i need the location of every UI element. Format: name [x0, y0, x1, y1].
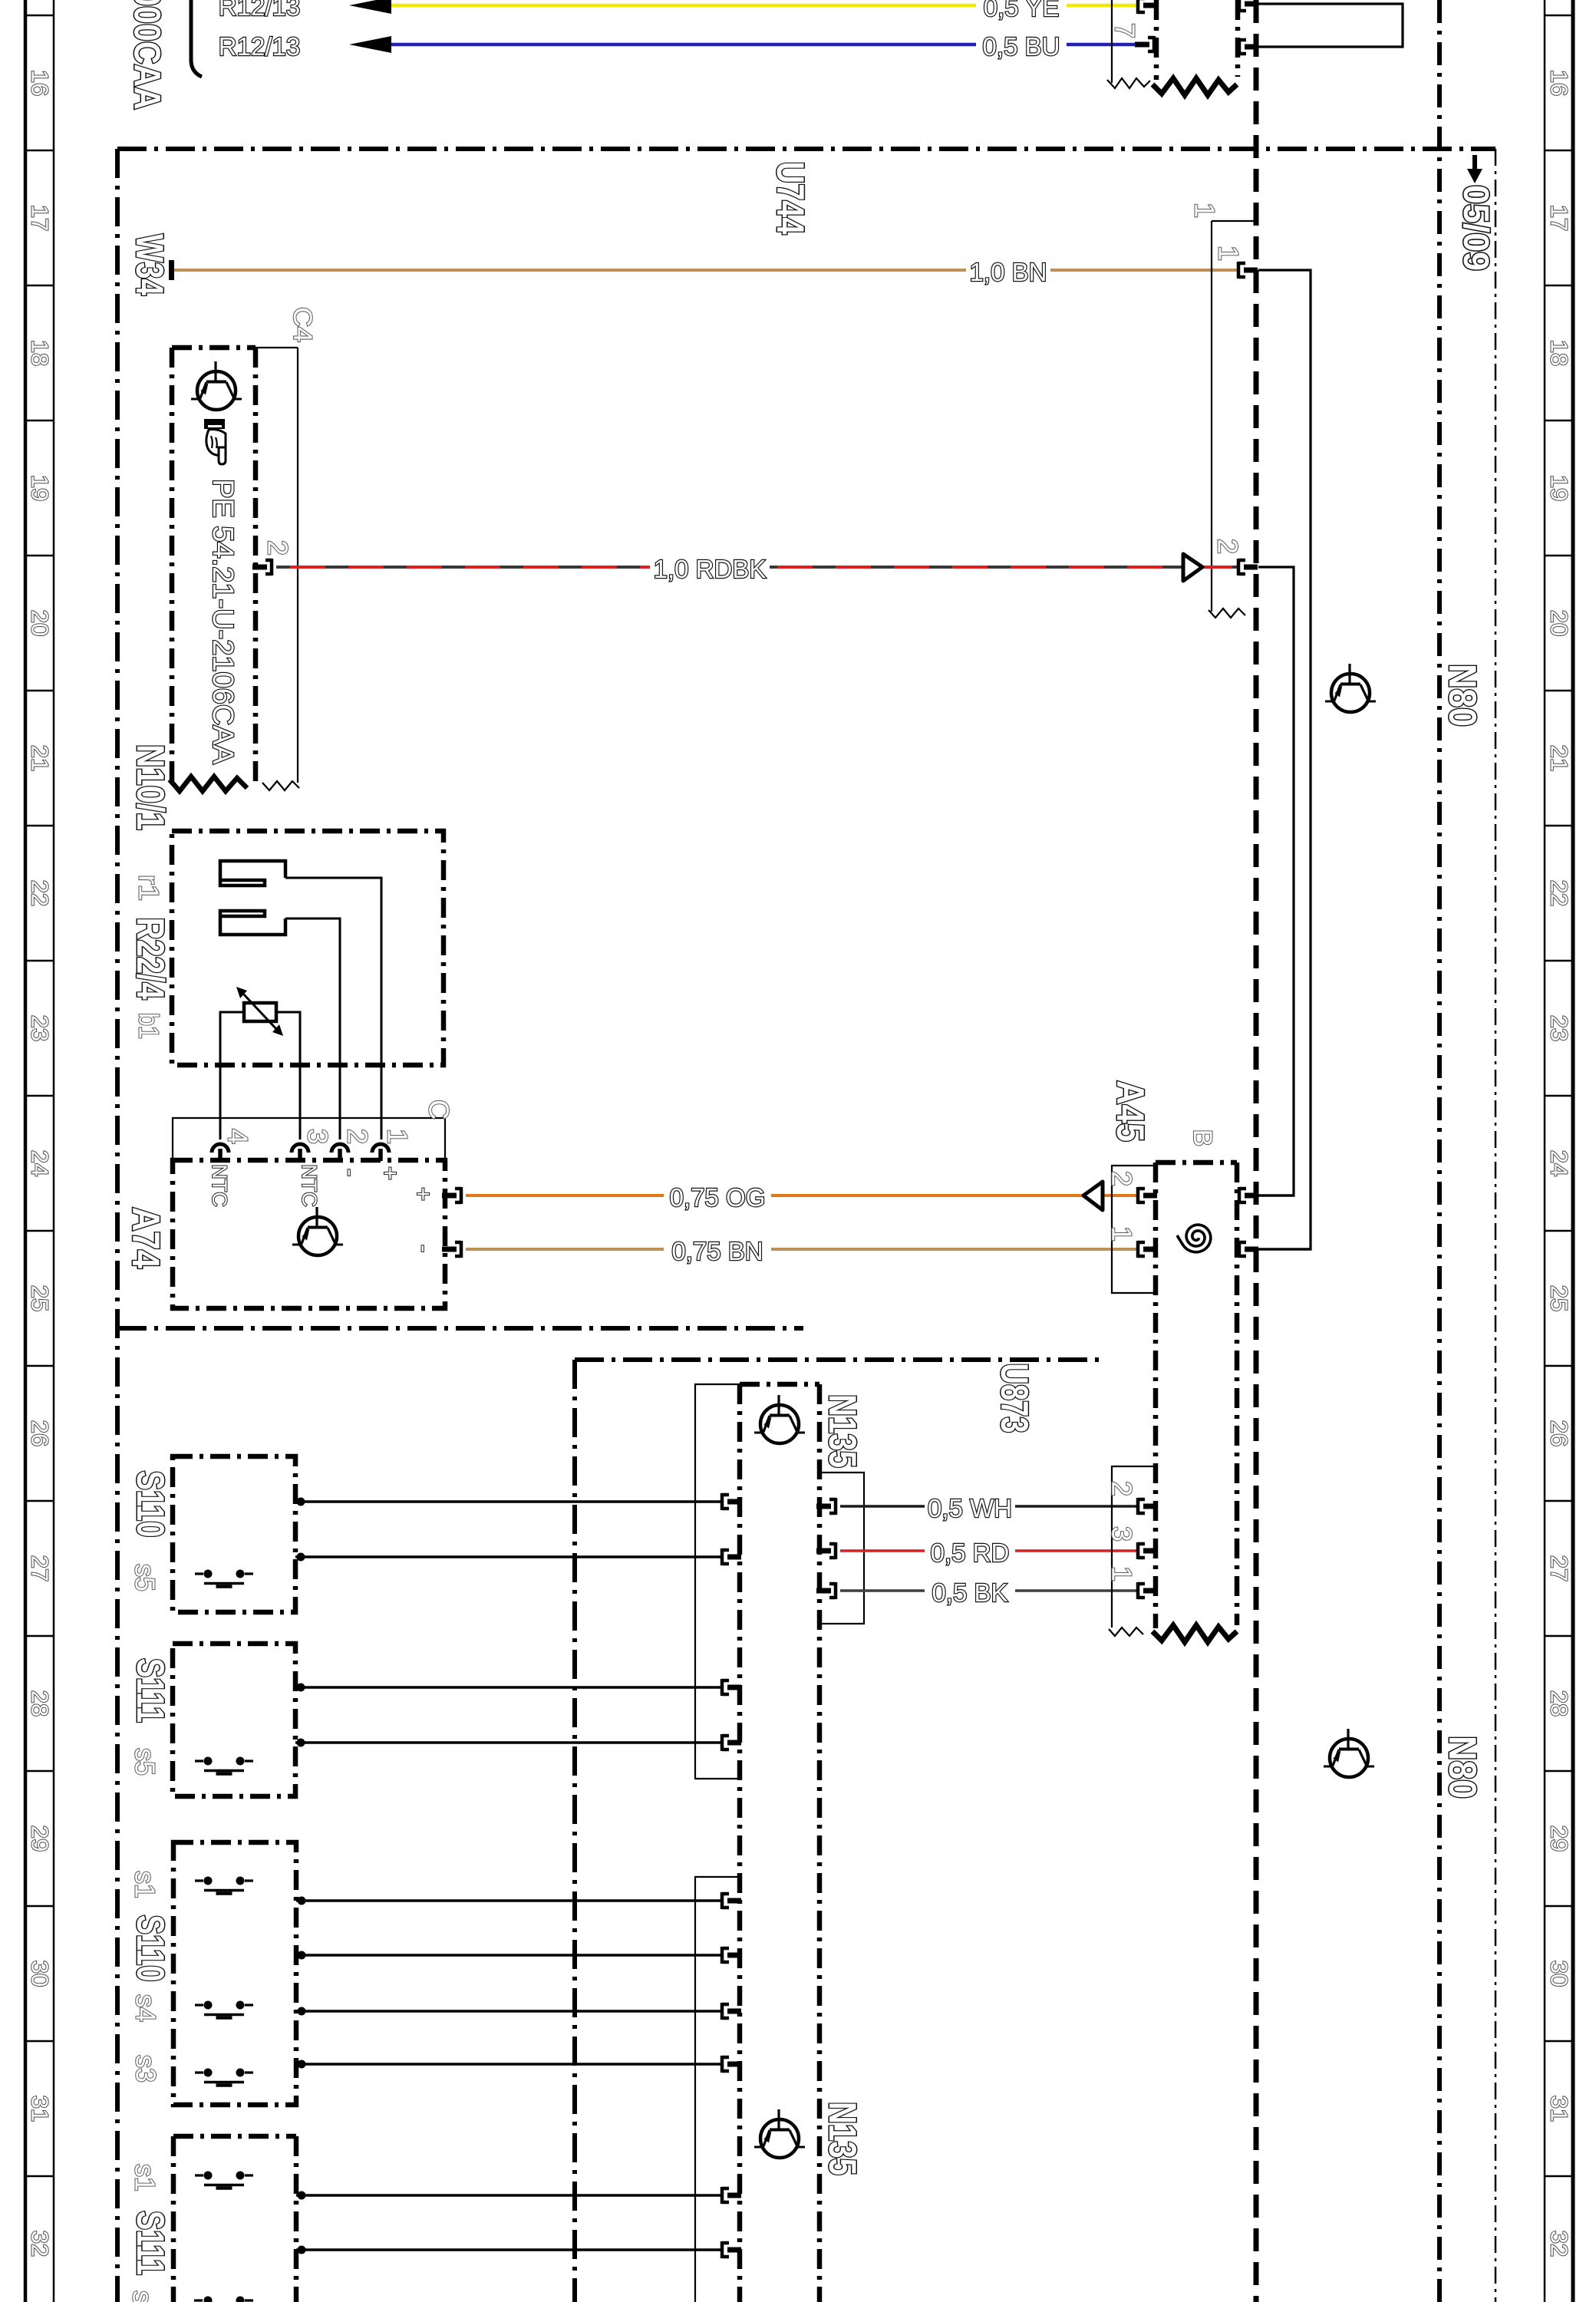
svg-text:4: 4 — [223, 1129, 254, 1144]
svg-text:NTC: NTC — [208, 1164, 231, 1207]
svg-text:2: 2 — [1106, 1481, 1138, 1496]
svg-text:16: 16 — [1546, 70, 1573, 96]
svg-text:21: 21 — [27, 745, 54, 771]
label U744 — [769, 162, 812, 235]
transistor in N80 lower — [1324, 1729, 1374, 1777]
svg-text:22: 22 — [27, 880, 54, 906]
label A74 — [124, 1207, 167, 1268]
svg-text:31: 31 — [1546, 2096, 1573, 2122]
right ruler numbers — [1546, 70, 1573, 2257]
svg-text:25: 25 — [1546, 1285, 1573, 1311]
label 1,0 BN — [970, 258, 1047, 286]
wire S111-1 — [295, 1684, 722, 1692]
svg-text:23: 23 — [1546, 1015, 1573, 1041]
N135 right connector frame — [819, 1473, 864, 1624]
label 0,5 YE — [984, 0, 1059, 21]
socket pin 1 — [372, 1144, 389, 1161]
svg-text:32: 32 — [1546, 2231, 1573, 2257]
svg-text:26: 26 — [27, 1420, 54, 1446]
direction arrow on RDBK — [1183, 554, 1202, 581]
svg-text:S111: S111 — [129, 1658, 172, 1723]
svg-text:29: 29 — [1546, 1825, 1573, 1852]
pin 3 A45 lower — [1138, 1542, 1157, 1559]
svg-text:PE 54.21-U-2106CAA: PE 54.21-U-2106CAA — [206, 479, 239, 764]
label s5 upper — [130, 1564, 161, 1591]
svg-text:21: 21 — [1546, 745, 1573, 771]
terminal bar W34 — [169, 260, 174, 280]
pin YE into top box — [1138, 0, 1157, 14]
svg-text:W34: W34 — [128, 234, 171, 295]
switch module N135 box — [740, 1384, 819, 2302]
svg-text:N80: N80 — [1441, 664, 1484, 727]
pin S110L-2 — [722, 1947, 741, 1964]
switch S111 upper box — [173, 1644, 295, 1796]
svg-text:N135: N135 — [821, 2102, 864, 2175]
svg-text:b1: b1 — [134, 1013, 165, 1039]
svg-text:27: 27 — [1546, 1555, 1573, 1581]
wire 1,0 RDBK red dashes — [276, 566, 1238, 569]
wire element to pin 2 — [285, 918, 340, 1139]
off-page arrow — [1467, 155, 1482, 183]
pin 7 label — [1110, 23, 1141, 38]
wire S111L-1 — [296, 2192, 722, 2200]
heater booster N10/1 box — [172, 348, 256, 781]
switch contact s4 — [195, 2001, 253, 2018]
svg-text:A74: A74 — [124, 1207, 167, 1268]
label 0,5 BK — [932, 1578, 1007, 1607]
left ruler ticks — [25, 15, 54, 2176]
svg-text:26: 26 — [1546, 1420, 1573, 1446]
label 1,0 RDBK — [654, 555, 767, 583]
A45 connector frame lower — [1112, 1466, 1156, 1628]
wire S110-1 — [295, 1498, 722, 1506]
svg-text:18: 18 — [1546, 340, 1573, 366]
wire S110L-1 — [296, 1897, 722, 1905]
label C4 — [288, 307, 317, 342]
right ruler frame — [1545, 0, 1573, 2302]
pin 2 N10/1 — [252, 559, 272, 575]
wire S110L-2 — [296, 1951, 722, 1960]
B box torn bottom zigzag — [1152, 1625, 1237, 1642]
svg-text:0,5 YE: 0,5 YE — [984, 0, 1059, 21]
svg-text:28: 28 — [1546, 1690, 1573, 1717]
wire S110L-4 — [296, 2060, 722, 2069]
svg-text:N135: N135 — [821, 1394, 864, 1468]
N135 left connector frame 2 — [695, 1877, 740, 2302]
label S111 lower — [129, 2211, 172, 2275]
pin out right top1 — [1239, 0, 1258, 12]
seat module A74 box — [173, 1160, 445, 1308]
svg-text:C: C — [424, 1100, 455, 1120]
svg-text:1: 1 — [1189, 203, 1221, 218]
label 0,75 BN — [671, 1237, 763, 1265]
svg-text:28: 28 — [27, 1690, 54, 1717]
svg-text:B: B — [1188, 1130, 1217, 1147]
svg-text:0,75 BN: 0,75 BN — [671, 1237, 763, 1265]
svg-text:30: 30 — [27, 1961, 54, 1987]
svg-text:s5: s5 — [130, 1564, 161, 1591]
wire 0,5 WH — [840, 1505, 1138, 1507]
svg-text:-: - — [411, 1245, 438, 1252]
svg-text:20: 20 — [1546, 610, 1573, 636]
svg-text:22: 22 — [1546, 880, 1573, 906]
transistor in N135 upper — [754, 1395, 805, 1443]
pin B right upper — [1239, 1187, 1258, 1204]
svg-text:31: 31 — [27, 2096, 54, 2122]
wire 0,5 BK — [840, 1589, 1138, 1591]
pin S111L-1 — [722, 2187, 741, 2204]
connector 1 label — [1189, 203, 1221, 218]
wire 0,75 OG — [466, 1194, 1138, 1197]
svg-text:s1: s1 — [130, 2164, 161, 2192]
pin N135 RD — [816, 1542, 836, 1559]
top connector frame — [1111, 0, 1113, 83]
wire S110-2 — [295, 1553, 722, 1562]
left ruler frame — [25, 0, 54, 2302]
label s1 S110 lower — [130, 1871, 161, 1898]
wire 0,75 BN — [466, 1248, 1138, 1251]
pin 1 label BN — [1213, 246, 1245, 261]
pin N135 BK — [816, 1582, 836, 1599]
switch S111 lower box — [173, 2136, 296, 2302]
svg-text:1: 1 — [382, 1129, 414, 1144]
top heater box edges — [1156, 0, 1238, 80]
pin 2 label A45 — [1106, 1171, 1138, 1186]
right ruler ticks — [1545, 15, 1573, 2176]
switch S110 upper box — [173, 1456, 295, 1612]
switch contact s3 — [195, 2069, 253, 2086]
label s5 S111 — [130, 1748, 161, 1776]
svg-text:2: 2 — [1106, 1171, 1138, 1186]
svg-text:16: 16 — [27, 70, 54, 96]
label minus output — [411, 1245, 438, 1252]
label PE 54.21-U-2106CAA — [206, 479, 239, 764]
label s3 — [130, 2055, 162, 2083]
connector C frame — [173, 1118, 445, 1160]
svg-text:7: 7 — [1110, 23, 1141, 38]
pin 2 label N80 — [1212, 539, 1244, 554]
label R22/4 — [129, 918, 172, 1000]
connector C4 torn end — [262, 781, 299, 790]
svg-text:+: + — [411, 1187, 437, 1201]
svg-text:N10/1: N10/1 — [129, 744, 172, 830]
svg-text:3: 3 — [1106, 1526, 1138, 1542]
hand symbol — [204, 419, 226, 464]
svg-text:s3: s3 — [130, 2055, 162, 2083]
svg-text:3: 3 — [302, 1129, 334, 1144]
svg-text:18: 18 — [27, 340, 54, 366]
svg-text:S111: S111 — [129, 2211, 172, 2275]
label s4 — [130, 1994, 162, 2022]
wire thermistor to pin 3 — [276, 1012, 300, 1139]
label R12/13 line 1 — [219, 0, 300, 21]
svg-text:17: 17 — [1546, 205, 1573, 231]
label 0,5 RD — [931, 1539, 1010, 1567]
label plus output — [411, 1187, 437, 1201]
pin label 3 — [302, 1129, 334, 1144]
pin 2 label A45 lower — [1106, 1481, 1138, 1496]
connector 1 frame torn end — [1209, 608, 1245, 618]
arrow on YE wire — [349, 0, 391, 14]
pin S110L-3 — [722, 2003, 741, 2020]
label S111 upper — [129, 1658, 172, 1723]
pin 3 label A45 lower — [1106, 1526, 1138, 1542]
svg-text:2: 2 — [342, 1129, 374, 1144]
label N135 lower — [821, 2102, 864, 2175]
label U873 — [993, 1364, 1036, 1433]
pin plus A74 — [442, 1187, 461, 1204]
svg-text:2: 2 — [262, 540, 294, 556]
svg-text:C4: C4 — [288, 307, 317, 342]
shield area U873 box — [575, 1360, 1105, 2302]
connector 1 frame — [1212, 221, 1256, 612]
N10/1 torn bottom zigzag — [170, 777, 247, 791]
label b1 — [134, 1013, 165, 1039]
svg-text:1: 1 — [1106, 1226, 1138, 1242]
svg-text:-: - — [338, 1169, 364, 1176]
heater regulator R22/4 box — [172, 831, 444, 1065]
svg-text:0,5 WH: 0,5 WH — [928, 1494, 1012, 1522]
svg-text:0,5 BU: 0,5 BU — [983, 32, 1060, 61]
label group bracket — [191, 0, 202, 77]
wire 0,5 BU — [390, 43, 1138, 47]
label N80 upper — [1441, 664, 1484, 727]
wire 1,0 RDBK base — [276, 566, 1238, 569]
svg-text:R12/13: R12/13 — [219, 32, 300, 61]
svg-text:R12/13: R12/13 — [219, 0, 300, 21]
transistor in N135 lower — [754, 2109, 805, 2158]
svg-text:17: 17 — [27, 205, 54, 231]
label 000CAA — [127, 0, 167, 110]
wire 1,0 BN — [174, 269, 1238, 272]
heating coil spiral — [1177, 1225, 1211, 1252]
heater element lower — [220, 911, 285, 935]
label B — [1188, 1130, 1217, 1147]
wire S111L-2 — [296, 2246, 722, 2254]
svg-text:+: + — [378, 1166, 404, 1180]
label 0,5 BU — [983, 32, 1060, 61]
label 0,75 OG — [670, 1183, 766, 1212]
label N10/1 — [129, 744, 172, 830]
wire S111-2 — [295, 1739, 722, 1747]
label plus pin1 — [378, 1166, 404, 1180]
heater element upper — [220, 861, 285, 886]
svg-text:29: 29 — [27, 1825, 54, 1852]
thermistor r1 — [236, 987, 283, 1036]
label NTC pin3 — [298, 1164, 321, 1207]
pin 1 A45 — [1138, 1241, 1157, 1258]
svg-text:S110: S110 — [129, 1471, 172, 1538]
arrow on BU wire — [349, 36, 391, 53]
svg-text:R22/4: R22/4 — [129, 918, 172, 1000]
svg-text:000CAA: 000CAA — [127, 0, 167, 110]
pin 1 A45 lower — [1138, 1582, 1157, 1599]
pin 1 label A45 lower — [1106, 1566, 1138, 1581]
wire 0,5 YE — [390, 4, 1138, 8]
svg-text:N80: N80 — [1441, 1736, 1484, 1799]
label S110 upper — [129, 1471, 172, 1538]
wire RDBK to B box — [1258, 567, 1294, 1196]
pin 2 A45 lower — [1138, 1498, 1157, 1515]
label s partial — [127, 2290, 159, 2302]
label C — [424, 1100, 455, 1120]
pin BU into top box — [1135, 36, 1154, 53]
wire S110L-3 — [296, 2007, 722, 2016]
switch S110 lower box — [173, 1842, 296, 2105]
svg-text:1: 1 — [1106, 1566, 1138, 1581]
svg-text:NTC: NTC — [298, 1164, 321, 1207]
switch contact s1 — [195, 1877, 253, 1894]
svg-text:s: s — [127, 2290, 159, 2302]
pin 1 label A45 — [1106, 1226, 1138, 1242]
svg-text:23: 23 — [27, 1015, 54, 1041]
page margin dash-dot line — [1495, 149, 1497, 2302]
pin S110-1 — [722, 1493, 741, 1510]
pin N135 WH — [816, 1498, 836, 1515]
wire B lower to N80 — [1258, 1248, 1311, 1250]
direction arrow on OG — [1083, 1182, 1103, 1210]
svg-text:27: 27 — [27, 1555, 54, 1581]
label 05/09 — [1456, 185, 1496, 271]
pin S110L-4 — [722, 2056, 741, 2073]
N135 left connector frame 1 — [695, 1384, 740, 1779]
socket pin 4 — [212, 1144, 229, 1161]
thin torn end left of B — [1109, 1628, 1143, 1636]
wire 0,5 RD — [840, 1549, 1138, 1552]
wire BN to B box — [1258, 270, 1311, 1249]
svg-text:s1: s1 — [130, 1871, 161, 1898]
svg-text:A45: A45 — [1109, 1080, 1152, 1142]
wire B upper to N80 — [1258, 1194, 1294, 1196]
pin 2 A45 — [1138, 1187, 1157, 1204]
socket pin 3 — [292, 1144, 308, 1161]
pin S110L-1 — [722, 1892, 741, 1909]
svg-text:05/09: 05/09 — [1456, 185, 1496, 271]
svg-text:1,0 RDBK: 1,0 RDBK — [654, 555, 767, 583]
pin 2 label N10/1 — [262, 540, 294, 556]
svg-text:24: 24 — [27, 1150, 54, 1176]
control unit N80 box left edge — [1254, 0, 1259, 2302]
label 0,5 WH — [928, 1494, 1012, 1522]
transistor in N10/1 — [191, 361, 242, 410]
svg-text:U744: U744 — [769, 162, 812, 235]
pin 2 N80 — [1238, 559, 1258, 575]
label A45 — [1109, 1080, 1152, 1142]
svg-text:s5: s5 — [130, 1748, 161, 1776]
wire thermistor to pin 4 — [220, 1012, 244, 1139]
transistor in N80 upper — [1325, 664, 1376, 712]
label N135 upper — [821, 1394, 864, 1468]
svg-text:U873: U873 — [993, 1364, 1036, 1433]
shield box right edge — [1437, 0, 1442, 2302]
pin label 1 — [382, 1129, 414, 1144]
loop wire right of top box — [1258, 4, 1403, 47]
top heater box torn bottom zigzag — [1152, 78, 1237, 95]
pin S110-2 — [722, 1548, 741, 1565]
left ruler numbers — [27, 70, 54, 2257]
pin out right top2 — [1239, 38, 1258, 55]
svg-text:0,5 BK: 0,5 BK — [932, 1578, 1007, 1607]
label r1 — [134, 875, 165, 901]
label NTC pin4 — [208, 1164, 231, 1207]
label S110 lower — [129, 1915, 172, 1982]
svg-text:r1: r1 — [134, 875, 165, 901]
socket pin 2 — [331, 1144, 348, 1161]
svg-text:24: 24 — [1546, 1150, 1573, 1176]
pin S111-2 — [722, 1734, 741, 1751]
svg-text:30: 30 — [1546, 1961, 1573, 1987]
label s1 S111 lower — [130, 2164, 161, 2192]
A45 connector frame upper — [1112, 1166, 1156, 1293]
top connector frame torn end — [1107, 78, 1150, 88]
svg-text:20: 20 — [27, 610, 54, 636]
label N80 lower — [1441, 1736, 1484, 1799]
svg-text:25: 25 — [27, 1285, 54, 1311]
pin minus A74 — [442, 1241, 461, 1258]
switch contact S110 upper — [195, 1570, 253, 1587]
svg-text:32: 32 — [27, 2231, 54, 2257]
switch contact S111 lower — [195, 2172, 253, 2188]
svg-text:0,75 OG: 0,75 OG — [670, 1183, 766, 1212]
label minus pin2 — [338, 1169, 364, 1176]
seat pad B box — [1156, 1163, 1237, 1628]
pin 1 N80 — [1238, 262, 1258, 279]
svg-text:s4: s4 — [130, 1994, 162, 2022]
pin S111-1 — [722, 1679, 741, 1696]
switch contact partial bottom — [194, 2297, 253, 2302]
svg-text:1,0 BN: 1,0 BN — [970, 258, 1047, 286]
svg-text:0,5 RD: 0,5 RD — [931, 1539, 1010, 1567]
transistor in A74 — [292, 1207, 343, 1255]
svg-text:1: 1 — [1213, 246, 1245, 261]
pin label 4 — [223, 1129, 254, 1144]
pin label 2 — [342, 1129, 374, 1144]
pin S111L-2 — [722, 2241, 741, 2258]
svg-text:S110: S110 — [129, 1915, 172, 1982]
wire element to pin 1 — [285, 878, 381, 1139]
svg-text:2: 2 — [1212, 539, 1244, 554]
connector C4 frame — [256, 348, 298, 783]
pin B right lower — [1239, 1241, 1258, 1258]
svg-text:19: 19 — [1546, 475, 1573, 501]
label W34 — [128, 234, 171, 295]
label R12/13 line 2 — [219, 32, 300, 61]
switch contact S111 upper — [195, 1757, 253, 1774]
svg-text:19: 19 — [27, 475, 54, 501]
